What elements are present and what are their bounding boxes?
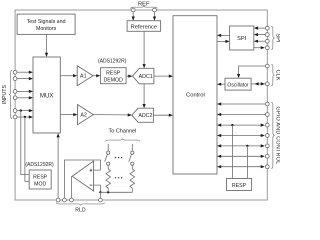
wire SPI pin CS	[257, 27, 265, 29]
wire RLDREF loop to amp noninverting input	[64, 160, 100, 200]
wire GPIO row 6	[220, 155, 261, 157]
wire R2 to bus	[131, 188, 133, 192]
adc ADC1	[133, 68, 154, 84]
wire GPIO row 1	[220, 103, 265, 105]
wire Oscillator to Control	[220, 83, 225, 85]
block Test Signals and Monitors	[17, 14, 75, 34]
block RESP DEMOD	[100, 68, 126, 84]
switch S2 top contact	[131, 151, 134, 154]
switch S1 bottom contact	[107, 162, 110, 165]
block Oscillator	[225, 78, 251, 90]
wire Test Signals to MUX	[46, 34, 48, 54]
pin IN3N	[13, 115, 17, 119]
pin GPIO6	[265, 154, 269, 158]
wire SPI pin SCLK	[257, 34, 265, 36]
svg-text:Test Signals and: Test Signals and	[27, 19, 66, 25]
wire A2 to ADC2	[93, 114, 128, 116]
block RESP MOD	[29, 170, 51, 189]
pin RLDINV	[99, 198, 103, 202]
block SPI	[230, 26, 254, 50]
svg-text:MOD: MOD	[34, 182, 46, 188]
svg-text:Monitors: Monitors	[36, 26, 57, 32]
pin REFN	[153, 8, 157, 12]
wire SPI pin DOUT	[254, 47, 262, 49]
wire IN3N to MUX	[17, 116, 30, 118]
svg-text:To Channel: To Channel	[108, 129, 136, 135]
pin IN2N	[13, 96, 17, 100]
wire RESP DEMOD to ADC1	[126, 75, 129, 77]
resistor R2	[130, 169, 135, 188]
svg-text:DEMOD: DEMOD	[104, 78, 124, 84]
wire GPIO row 3	[220, 124, 261, 126]
ellipsis between switches	[115, 157, 116, 158]
wire IN3P to MUX	[17, 110, 30, 112]
switch S2 lever	[129, 154, 132, 161]
wire input5 to RESP MOD	[21, 111, 29, 175]
junction GPIO row3	[231, 124, 233, 126]
wire IN1N to MUX	[17, 78, 30, 80]
junction on input 5	[20, 109, 22, 111]
svg-text:MUX: MUX	[40, 94, 53, 100]
svg-text:Reference: Reference	[131, 24, 157, 30]
pin DOUT	[265, 46, 269, 50]
pin IN2P	[13, 90, 17, 94]
wire Reference to ADC1	[143, 31, 145, 65]
wire REFN to Reference	[154, 12, 156, 18]
pin CLK2	[265, 82, 269, 86]
chip outer border	[15, 10, 267, 200]
junction on input 6	[24, 116, 26, 118]
switch S1 bottom stub	[107, 165, 109, 169]
wire feedback bus to resistors	[100, 191, 132, 193]
junction left resistor bottom	[107, 191, 109, 193]
wire A1 to RESP DEMOD	[93, 75, 97, 77]
pin GPIO1	[265, 102, 269, 106]
brace for GPIO pins	[271, 102, 274, 168]
block MUX	[33, 57, 60, 133]
pin GPIO4	[265, 134, 269, 138]
switch S1 top contact	[107, 151, 110, 154]
svg-text:RESP: RESP	[232, 183, 247, 189]
wire ADC2 to Control	[153, 114, 169, 116]
switch S2 top stub	[131, 144, 133, 151]
plus input marker	[90, 169, 93, 172]
wire GPIO row 4	[220, 135, 261, 137]
svg-text:RESP: RESP	[33, 175, 48, 181]
wire IN1P to MUX	[17, 71, 30, 73]
ellipsis between resistors	[115, 177, 116, 178]
block Control	[173, 16, 217, 174]
junction GPIO row5	[246, 145, 248, 147]
pin GPIO7	[265, 165, 269, 169]
pin RLDREF	[63, 198, 67, 202]
svg-text:ADC2: ADC2	[138, 113, 152, 119]
svg-text:GPIO AND CONTROL: GPIO AND CONTROL	[274, 106, 280, 164]
brace for CLK pins	[271, 64, 274, 85]
wire R1 to bus	[107, 188, 109, 192]
svg-text:ADC1: ADC1	[139, 74, 153, 80]
brace for input pins	[9, 70, 12, 118]
wire MUX to A1	[60, 75, 74, 77]
wire amp inverting input to RLDINV	[94, 185, 101, 192]
wire RLDOUT to amp output	[70, 176, 72, 200]
wire GPIO row 7	[220, 166, 261, 168]
block Reference	[127, 21, 161, 32]
pin GPIO3	[265, 123, 269, 127]
pin DIN	[265, 39, 269, 43]
wire IN2P to MUX	[17, 90, 30, 92]
op-amp A2	[78, 105, 94, 125]
svg-text:Control: Control	[186, 93, 205, 99]
svg-text:SPI: SPI	[237, 36, 246, 42]
switch S2 bottom stub	[131, 165, 133, 169]
svg-text:A2: A2	[80, 113, 87, 119]
wire input6 to RESP MOD	[25, 117, 29, 181]
junction RLDINV node	[99, 191, 101, 193]
pin RLD1	[56, 198, 60, 202]
pin CS	[265, 26, 269, 30]
wire SPI to Control	[220, 34, 229, 36]
op-amp A1	[77, 66, 93, 86]
brace for SPI pins	[271, 26, 274, 49]
pin GPIO5	[265, 144, 269, 148]
wire ADC1 to ADC2	[143, 84, 145, 105]
pin GPIO2	[265, 113, 269, 117]
wire Control to SPI	[217, 40, 226, 42]
svg-text:RESP: RESP	[106, 71, 121, 77]
wire GPIO row5 to RESP block	[246, 146, 248, 179]
wire GPIO row3 to RESP block	[231, 125, 233, 178]
switch S1 lever	[105, 154, 108, 161]
svg-text:SPI: SPI	[274, 33, 280, 42]
wire SPI pin DIN	[257, 40, 265, 42]
switch S1 top stub	[107, 144, 109, 151]
wire REFP to Reference	[132, 12, 134, 18]
wire MUX to A2	[60, 114, 74, 116]
brace for REF pins	[131, 6, 158, 9]
pin CLK1	[265, 64, 269, 68]
svg-text:(ADS1292R): (ADS1292R)	[25, 162, 54, 168]
wire CLK1 to Oscillator top	[239, 66, 266, 75]
switch S2 bottom contact	[131, 162, 134, 165]
pin RLDOUT	[70, 198, 74, 202]
pin IN1P	[13, 70, 17, 74]
svg-text:(ADS1292R): (ADS1292R)	[98, 59, 127, 65]
wire IN2N to MUX	[17, 97, 30, 99]
svg-text:INPUTS: INPUTS	[2, 85, 8, 105]
pin IN1N	[13, 77, 17, 81]
svg-text:RLD: RLD	[75, 208, 86, 213]
svg-text:CLK: CLK	[274, 70, 280, 81]
wire RLD pin1 to MUX bottom	[57, 136, 59, 200]
wire GPIO row 2	[220, 114, 265, 116]
minus input marker	[90, 184, 93, 186]
wire RLDINV vertical	[99, 192, 101, 200]
wire ADC1 to Control	[154, 75, 170, 77]
block RESP	[227, 179, 252, 191]
svg-text:Oscillator: Oscillator	[227, 82, 249, 88]
resistor R1	[106, 169, 111, 188]
brace To Channel	[106, 139, 140, 142]
pin IN3P	[13, 109, 17, 113]
svg-text:A1: A1	[80, 74, 87, 80]
wire GPIO row 5	[220, 145, 261, 147]
brace RLD pins	[56, 202, 104, 205]
op-amp RLD amplifier	[72, 161, 93, 191]
wire Oscillator to CLK2 bidirectional	[251, 83, 265, 85]
adc ADC2	[132, 108, 154, 122]
pin SCLK	[265, 33, 269, 37]
pin REFP	[131, 8, 135, 12]
